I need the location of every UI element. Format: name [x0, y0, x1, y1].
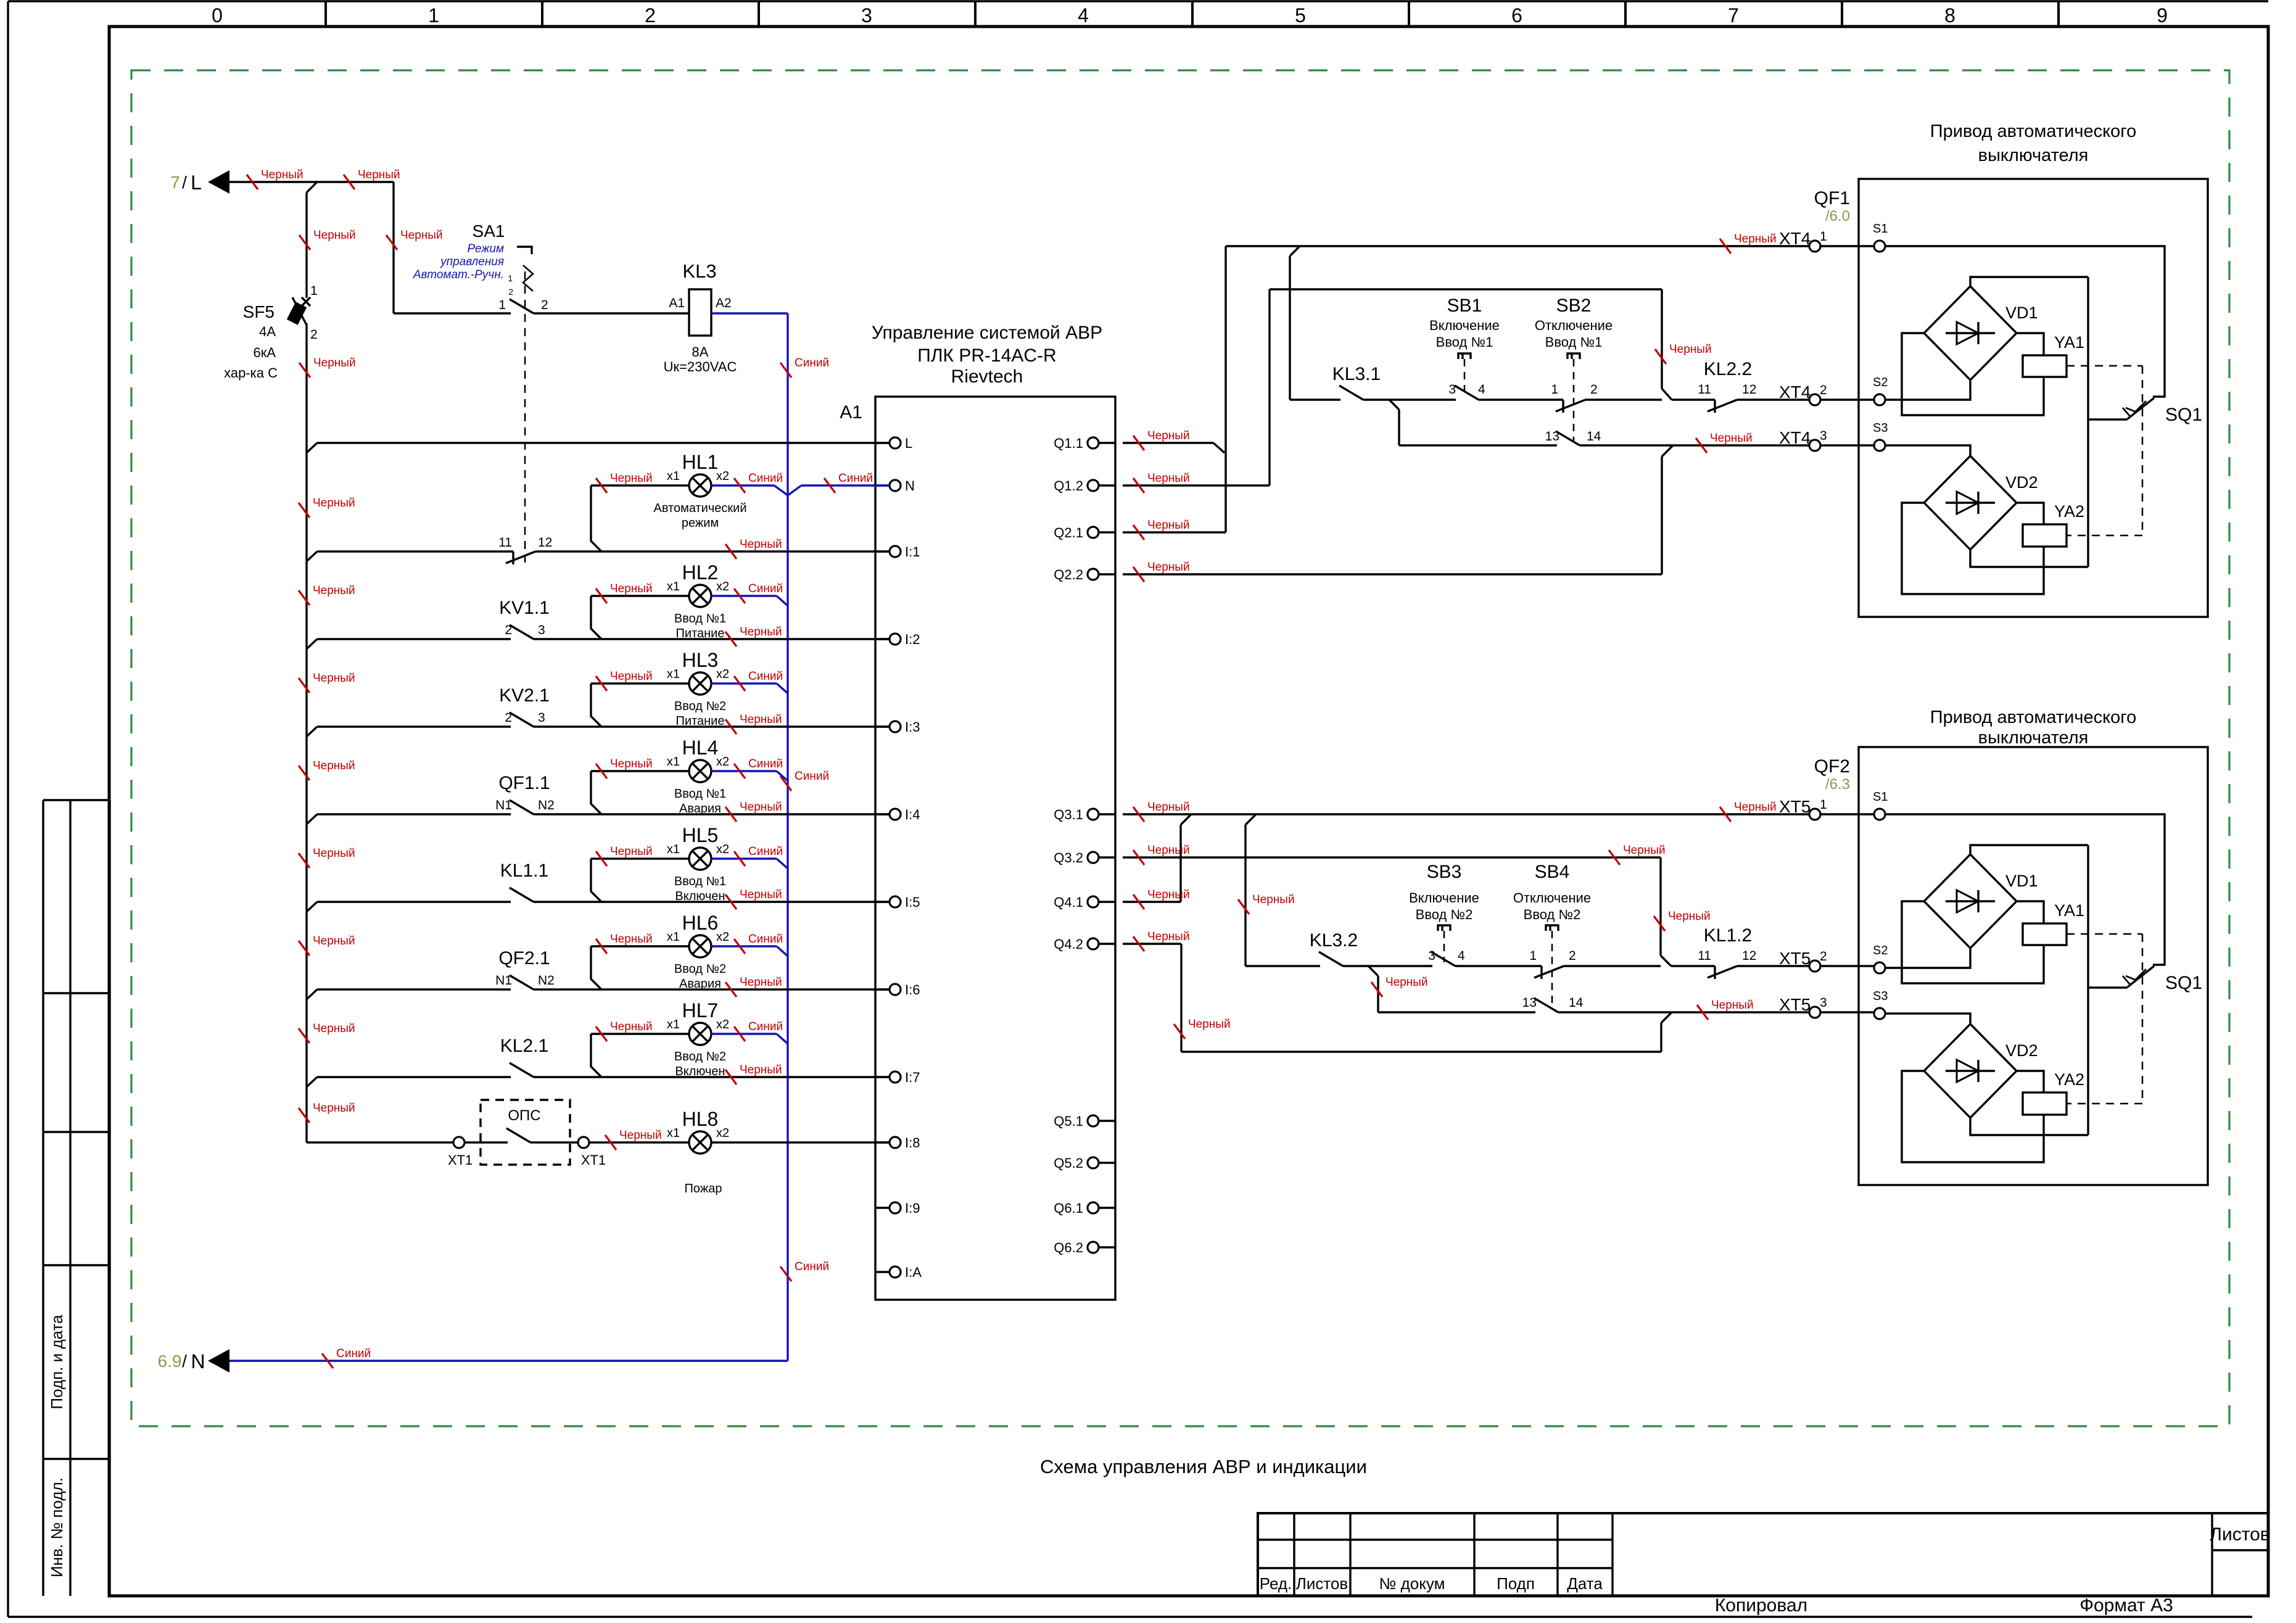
svg-text:ПЛК PR-14AC-R: ПЛК PR-14AC-R [917, 345, 1056, 366]
svg-text:Синий: Синий [795, 1260, 829, 1273]
svg-text:Листов: Листов [1296, 1574, 1348, 1593]
svg-text:Черный: Черный [1710, 432, 1753, 445]
svg-text:Черный: Черный [610, 472, 653, 485]
svg-text:1: 1 [1529, 949, 1537, 963]
wire KL3 A2 to N bus (blue) [711, 312, 788, 314]
wire riser to KL3.2 [1245, 814, 1256, 825]
wire lamp branch vertical [590, 946, 592, 980]
svg-text:Черный: Черный [1711, 999, 1754, 1012]
svg-text:Черный: Черный [1252, 893, 1295, 906]
sheet outer border [8, 0, 2268, 2]
svg-text:Синий: Синий [748, 582, 783, 595]
svg-text:Ввод №2: Ввод №2 [674, 700, 726, 713]
svg-text:Q2.1: Q2.1 [1054, 525, 1083, 540]
svg-text:A1: A1 [840, 402, 862, 423]
svg-text:1: 1 [428, 4, 439, 27]
svg-text:9: 9 [2157, 4, 2168, 27]
PLC output pin Q2.1 [1099, 531, 1115, 533]
svg-text:N2: N2 [538, 973, 555, 988]
svg-text:x2: x2 [716, 1018, 729, 1031]
svg-text:Ввод №2: Ввод №2 [1524, 907, 1581, 922]
svg-text:I:7: I:7 [905, 1070, 920, 1085]
svg-text:I:A: I:A [905, 1265, 922, 1280]
svg-text:HL4: HL4 [682, 737, 719, 759]
svg-text:Ввод №1: Ввод №1 [1436, 334, 1493, 350]
SA1 linkage (dashed) [524, 271, 526, 563]
svg-text:QF2.1: QF2.1 [498, 948, 550, 968]
svg-text:Черный: Черный [740, 538, 782, 551]
svg-text:Q3.2: Q3.2 [1054, 850, 1083, 865]
svg-text:HL8: HL8 [682, 1108, 719, 1130]
svg-text:Rievtech: Rievtech [951, 366, 1023, 387]
wire L row to PLC [307, 443, 317, 453]
svg-text:N: N [905, 478, 915, 494]
svg-text:Черный: Черный [313, 584, 355, 597]
wire Q3.1 to XT5:1 row [1123, 813, 1874, 815]
svg-text:N2: N2 [538, 798, 555, 812]
wire lamp row black [591, 682, 689, 684]
wire Q4.2 dip path [1123, 943, 1181, 944]
svg-text:3: 3 [861, 4, 872, 27]
PLC input pin I:6 [875, 988, 890, 990]
svg-text:N: N [191, 1350, 205, 1373]
svg-text:/: / [182, 1352, 187, 1371]
svg-text:Черный: Черный [610, 582, 653, 595]
svg-text:Ввод №2: Ввод №2 [674, 1050, 726, 1063]
node L : sheet reference arrow 7/L [208, 170, 229, 194]
svg-text:режим: режим [682, 516, 719, 530]
svg-text:Черный: Черный [313, 229, 356, 242]
PLC input pin I:4 [875, 813, 890, 815]
wire riser to Q4.1 [1181, 814, 1191, 825]
svg-text:Q4.2: Q4.2 [1054, 936, 1083, 952]
svg-text:SB2: SB2 [1556, 295, 1592, 316]
linkage YA1-SQ1-YA2 (dashed) [2067, 933, 2142, 935]
svg-text:HL2: HL2 [682, 561, 719, 584]
wire lamp row black [591, 1033, 689, 1035]
wire HL7 x2 to N bus (blue) [711, 1033, 777, 1035]
svg-text:Черный: Черный [610, 1020, 653, 1033]
svg-text:Включен: Включен [675, 1065, 725, 1078]
svg-text:x1: x1 [667, 843, 680, 856]
svg-text:x1: x1 [667, 469, 680, 483]
svg-text:Синий: Синий [795, 357, 829, 370]
wire lamp branch vertical [590, 596, 592, 629]
svg-text:2: 2 [1820, 949, 1827, 964]
svg-text:Включение: Включение [1429, 318, 1500, 333]
PLC output pin Q6.2 [1099, 1246, 1115, 1248]
wire VD2 left to YA2 bottom [1902, 503, 2044, 594]
svg-text:Черный: Черный [1147, 844, 1190, 857]
wire VD2 right to YA2 top [2017, 503, 2044, 524]
svg-text:8А: 8А [692, 344, 709, 360]
svg-text:Синий: Синий [748, 933, 783, 946]
svg-text:Синий: Синий [748, 670, 783, 683]
svg-text:Питание: Питание [676, 714, 725, 728]
wire S2 to VD1 bottom [1885, 380, 1970, 400]
svg-text:HL1: HL1 [682, 451, 719, 473]
wire S3 to VD2 top [1885, 445, 1970, 456]
wire lamp branch vertical [590, 683, 592, 717]
svg-text:YA1: YA1 [2054, 333, 2084, 352]
PLC output pin Q1.1 [1099, 442, 1115, 444]
linkage YA1-SQ1-YA2 (dashed) [2067, 365, 2142, 367]
svg-text:4А: 4А [259, 324, 276, 339]
svg-text:x2: x2 [716, 843, 729, 856]
svg-text:7: 7 [1728, 4, 1739, 27]
svg-text:Авария: Авария [679, 802, 721, 816]
svg-text:S2: S2 [1873, 944, 1888, 957]
wire HL3 x2 to N bus (blue) [711, 682, 777, 684]
svg-text:HL7: HL7 [682, 999, 719, 1022]
svg-text:/6.3: /6.3 [1825, 776, 1850, 793]
wire HL2 x2 to N bus (blue) [711, 595, 777, 597]
svg-text:2: 2 [1590, 382, 1598, 397]
svg-text:x1: x1 [667, 667, 680, 681]
wire lamp row black [591, 484, 689, 486]
svg-text:Черный: Черный [1188, 1018, 1231, 1031]
svg-text:Копировал: Копировал [1715, 1595, 1807, 1616]
svg-text:Q6.1: Q6.1 [1054, 1200, 1083, 1216]
wire lamp branch vertical [590, 771, 592, 804]
svg-text:управления: управления [439, 255, 504, 268]
wire Q1.1 to riser V1 [1123, 442, 1213, 444]
svg-text:x1: x1 [667, 930, 680, 944]
svg-text:Управление системой АВР: Управление системой АВР [872, 323, 1102, 343]
wire contact row to I:7 [307, 1077, 317, 1087]
svg-text:Автомат.-Ручн.: Автомат.-Ручн. [413, 268, 504, 281]
svg-text:6.9: 6.9 [158, 1352, 182, 1371]
svg-text:Q5.2: Q5.2 [1054, 1155, 1083, 1171]
PLC input pin I:2 [875, 638, 890, 640]
svg-text:Q2.2: Q2.2 [1054, 567, 1083, 582]
column ruler ticks [324, 1, 327, 27]
wire lamp branch vertical [590, 485, 592, 542]
svg-text:KL3.2: KL3.2 [1310, 930, 1358, 951]
svg-text:№ докум: № докум [1379, 1574, 1445, 1593]
fire alarm contact ОПС (dashed box) [481, 1100, 570, 1165]
svg-text:11: 11 [498, 535, 512, 550]
wire SQ1 common node [2088, 418, 2128, 420]
svg-text:Черный: Черный [313, 497, 355, 510]
wire L arrow line [227, 181, 394, 183]
svg-text:Синий: Синий [748, 472, 783, 485]
svg-text:Синий: Синий [795, 770, 829, 783]
svg-text:2: 2 [541, 298, 548, 312]
svg-text:L: L [905, 436, 912, 451]
wire lamp row black [591, 595, 689, 597]
svg-text:SQ1: SQ1 [2165, 973, 2202, 993]
svg-text:Черный: Черный [313, 672, 355, 685]
wire HL8 x2 to I:8 [711, 1141, 890, 1143]
svg-text:7: 7 [170, 173, 180, 192]
PLC input pin I:A [875, 1271, 890, 1273]
svg-text:2: 2 [1569, 949, 1576, 963]
svg-text:Режим: Режим [468, 242, 504, 255]
svg-text:Черный: Черный [1385, 976, 1428, 989]
PLC output pin Q2.2 [1099, 573, 1115, 575]
wire contact to PLC pin [534, 901, 890, 902]
svg-text:Включен: Включен [675, 890, 725, 903]
svg-text:Черный: Черный [1734, 233, 1777, 246]
svg-text:HL5: HL5 [682, 824, 719, 846]
wire riser V2 and SB group top [1268, 289, 1270, 485]
rectifier bridge VD1 [1924, 854, 2017, 948]
svg-text:Черный: Черный [313, 1102, 355, 1115]
svg-text:XT1: XT1 [581, 1152, 606, 1168]
svg-text:XT4: XT4 [1779, 382, 1811, 402]
svg-text:ОПС: ОПС [508, 1107, 540, 1124]
svg-text:YA1: YA1 [2054, 901, 2084, 920]
svg-text:Авария: Авария [679, 977, 721, 991]
wire VD1 right to YA1 top [2017, 901, 2044, 923]
wire I:8 row from bus [307, 1141, 453, 1143]
svg-text:XT5: XT5 [1779, 995, 1811, 1014]
svg-text:x1: x1 [667, 1126, 680, 1140]
terminal XT1 (right) [578, 1137, 589, 1148]
wire VD1 left to YA1 bottom [1902, 333, 2044, 415]
svg-text:Черный: Черный [740, 801, 782, 814]
svg-text:Черный: Черный [740, 976, 782, 989]
wire HL1 x2 to N pin (blue) [711, 484, 774, 486]
PLC input pin I:1 [875, 550, 890, 552]
svg-text:SB4: SB4 [1535, 862, 1570, 882]
svg-text:Черный: Черный [740, 713, 782, 726]
svg-text:Синий: Синий [748, 758, 783, 770]
PLC input pin I:8 [875, 1141, 890, 1143]
svg-text:3: 3 [1820, 996, 1827, 1010]
svg-text:Q3.1: Q3.1 [1054, 807, 1083, 822]
wire contact to PLC pin [534, 1076, 890, 1078]
svg-text:x1: x1 [667, 580, 680, 593]
wire contact row to I:2 [307, 639, 317, 649]
svg-text:Привод автоматического: Привод автоматического [1930, 708, 2137, 727]
svg-text:1: 1 [508, 273, 513, 283]
svg-text:Ввод №1: Ввод №1 [1545, 334, 1603, 350]
svg-text:Ред.: Ред. [1260, 1574, 1292, 1593]
svg-text:Черный: Черный [313, 357, 356, 370]
wire lamp row black [591, 945, 689, 947]
svg-text:Q4.1: Q4.1 [1054, 894, 1083, 910]
svg-text:3: 3 [1820, 429, 1827, 443]
svg-text:x1: x1 [667, 755, 680, 769]
svg-text:14: 14 [1569, 996, 1584, 1010]
svg-text:I:8: I:8 [905, 1135, 920, 1150]
PLC output pin Q3.2 [1099, 856, 1115, 858]
wire contact row to I:1 [307, 551, 317, 561]
svg-text:Синий: Синий [748, 845, 783, 858]
svg-text:6: 6 [1511, 4, 1522, 27]
svg-text:VD1: VD1 [2005, 304, 2038, 322]
wire VD2 bottom to node [1970, 1118, 2088, 1135]
wire contact to PLC pin [534, 988, 890, 990]
svg-text:x1: x1 [667, 1018, 680, 1031]
svg-text:Черный: Черный [1147, 888, 1190, 901]
svg-text:выключателя: выключателя [1978, 146, 2089, 165]
wire contact to PLC pin [534, 813, 890, 815]
svg-text:11: 11 [1698, 949, 1711, 963]
svg-text:Черный: Черный [1669, 343, 1712, 356]
svg-text:Черный: Черный [313, 935, 355, 948]
svg-text:Ввод №1: Ввод №1 [674, 612, 726, 626]
wire XT4:1 row [1226, 245, 1874, 247]
wire Q3.2 to KL1.2 node riser [1123, 856, 1661, 858]
wire contact row to I:4 [307, 814, 317, 824]
wire Q2.1 to riser V1 [1123, 531, 1226, 533]
svg-text:Черный: Черный [313, 759, 355, 772]
wire HL6 x2 to N bus (blue) [711, 945, 777, 947]
svg-text:XT4: XT4 [1779, 428, 1811, 447]
svg-text:Привод автоматического: Привод автоматического [1930, 122, 2137, 141]
svg-text:KL3.1: KL3.1 [1332, 364, 1381, 384]
node N : sheet reference arrow 6.9/N [208, 1349, 229, 1373]
wire contact to PLC pin [534, 725, 890, 727]
svg-text:Черный: Черный [358, 168, 400, 181]
green page boundary (dashed) [131, 70, 2229, 1426]
svg-text:I:3: I:3 [905, 719, 920, 735]
svg-text:KL1.1: KL1.1 [500, 861, 548, 881]
svg-text:/6.0: /6.0 [1825, 208, 1850, 225]
svg-text:3: 3 [1428, 949, 1435, 963]
svg-text:x2: x2 [716, 930, 729, 944]
svg-text:Черный: Черный [261, 168, 304, 181]
svg-text:I:6: I:6 [905, 982, 920, 997]
wire lamp row black [591, 857, 689, 859]
svg-text:XT5: XT5 [1779, 949, 1811, 968]
svg-text:x2: x2 [716, 667, 729, 681]
svg-text:3: 3 [538, 711, 545, 725]
svg-text:Черный: Черный [610, 670, 653, 683]
svg-text:4: 4 [1478, 382, 1485, 397]
wire SA1 feeder vertical [392, 182, 394, 313]
svg-text:S2: S2 [1873, 376, 1888, 389]
svg-text:L: L [191, 171, 202, 194]
PLC output pin Q5.2 [1099, 1162, 1115, 1163]
svg-text:2: 2 [310, 328, 318, 342]
PLC input pin I:5 [875, 901, 890, 902]
wire VD1 top to node [1970, 845, 2088, 854]
svg-text:14: 14 [1587, 429, 1601, 444]
svg-text:I:9: I:9 [905, 1200, 920, 1216]
PLC input pin I:3 [875, 725, 890, 727]
wire lamp row black [591, 770, 689, 772]
wire VD1 left to YA1 bottom [1902, 901, 2044, 983]
wire contact row to I:3 [307, 727, 317, 737]
svg-text:Черный: Черный [1147, 801, 1190, 814]
svg-text:1: 1 [1551, 382, 1558, 397]
svg-text:x2: x2 [716, 469, 729, 483]
wire Q4.1 [1123, 901, 1181, 902]
svg-text:Схема управления АВР и индикац: Схема управления АВР и индикации [1040, 1456, 1367, 1477]
wire S2 to VD1 bottom [1885, 948, 1970, 968]
wire branch to SB2 contact 13-14 [1389, 400, 1399, 410]
wire S1 to SQ1 [1885, 814, 2165, 965]
svg-text:Черный: Черный [610, 933, 653, 946]
wire S1 to SQ1 [1885, 246, 2165, 397]
svg-text:XT5: XT5 [1779, 797, 1811, 816]
svg-text:Черный: Черный [610, 758, 653, 770]
svg-text:6кА: 6кА [253, 345, 276, 360]
svg-text:11: 11 [1698, 382, 1711, 397]
wire VD2 right to YA2 top [2017, 1071, 2044, 1092]
wire SB2 out to KL2.2 [1672, 399, 1715, 400]
svg-text:Ввод №2: Ввод №2 [674, 962, 726, 976]
PLC output pin Q5.1 [1099, 1120, 1115, 1121]
svg-text:I:1: I:1 [905, 544, 920, 560]
PLC output pin Q4.2 [1099, 943, 1115, 944]
svg-text:A1: A1 [669, 296, 685, 310]
svg-text:Черный: Черный [610, 845, 653, 858]
svg-text:Черный: Черный [1623, 844, 1666, 857]
svg-text:x2: x2 [716, 755, 729, 769]
wire XT1 to HL8 [589, 1141, 689, 1143]
svg-text:Пожар: Пожар [685, 1182, 722, 1196]
svg-text:Питание: Питание [676, 627, 725, 640]
svg-text:1: 1 [498, 298, 506, 312]
wire lamp branch vertical [590, 859, 592, 892]
svg-text:HL6: HL6 [682, 912, 719, 934]
wire VD1 top to node [1970, 277, 2088, 286]
svg-text:KL2.2: KL2.2 [1704, 359, 1752, 379]
svg-text:Черный: Черный [740, 1063, 782, 1076]
svg-text:Инв. № подл.: Инв. № подл. [47, 1477, 66, 1577]
svg-text:KV1.1: KV1.1 [499, 598, 550, 618]
svg-text:S1: S1 [1873, 222, 1888, 236]
wire KL3.1 feeder from XT4:1 row [1290, 246, 1300, 256]
PLC input pin L [875, 442, 890, 444]
svg-text:KL1.2: KL1.2 [1704, 925, 1752, 946]
svg-text:KL2.1: KL2.1 [500, 1036, 548, 1056]
svg-text:выключателя: выключателя [1978, 728, 2089, 748]
svg-text:SA1: SA1 [473, 221, 505, 241]
rectifier bridge VD1 [1924, 286, 2017, 380]
svg-text:2: 2 [508, 287, 513, 297]
svg-text:Отключение: Отключение [1535, 318, 1613, 333]
svg-text:5: 5 [1295, 4, 1306, 27]
wire left bus (black) [307, 182, 317, 192]
svg-text:XT1: XT1 [448, 1152, 473, 1168]
svg-text:HL3: HL3 [682, 649, 719, 671]
svg-text:I:5: I:5 [905, 894, 920, 910]
svg-text:Черный: Черный [740, 888, 782, 901]
PLC output pin Q3.1 [1099, 813, 1115, 815]
svg-text:12: 12 [1742, 382, 1756, 397]
wire N bus vertical (blue) [787, 313, 788, 1361]
title block table [1258, 1513, 2268, 1596]
PLC input pin I:9 [875, 1207, 890, 1208]
svg-text:x2: x2 [716, 580, 729, 593]
wire HL4 x2 to N bus (blue) [711, 770, 777, 772]
svg-text:Черный: Черный [313, 847, 355, 860]
wire contact row to I:6 [307, 989, 317, 999]
svg-text:Подп: Подп [1497, 1574, 1535, 1593]
svg-text:Черный: Черный [1668, 910, 1711, 923]
wire HL5 x2 to N bus (blue) [711, 857, 777, 859]
svg-text:/: / [182, 173, 187, 192]
svg-text:SF5: SF5 [243, 302, 275, 321]
svg-text:VD2: VD2 [2005, 1041, 2038, 1060]
svg-text:I:4: I:4 [905, 807, 920, 822]
svg-text:XT4: XT4 [1779, 229, 1811, 248]
svg-text:Uк=230VAC: Uк=230VAC [664, 359, 737, 374]
svg-text:Черный: Черный [1147, 472, 1190, 485]
svg-text:Черный: Черный [1147, 561, 1190, 574]
svg-text:Отключение: Отключение [1513, 890, 1591, 906]
svg-text:Листов: Листов [2210, 1524, 2269, 1545]
PLC output pin Q1.2 [1099, 484, 1115, 486]
svg-text:A2: A2 [716, 296, 732, 310]
wire Q2.2 to XT4:3 row [1123, 573, 1662, 575]
